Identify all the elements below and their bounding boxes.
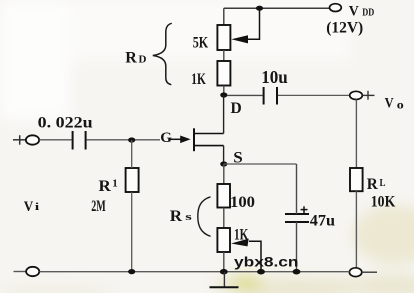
wire: 1K pot bottom lead: [223, 252, 225, 272]
capacitor 0.022u: [73, 131, 86, 150]
terminal Vo with plus tick: [350, 91, 375, 100]
resistor R1: [126, 168, 139, 192]
terminal VDD: [330, 4, 342, 12]
svg-text:0. 022u: 0. 022u: [38, 115, 93, 132]
wire: input terminal to 0.022u cap: [39, 139, 71, 141]
wire: source vertical down to node S: [223, 146, 225, 164]
label 10u: [261, 67, 288, 87]
resistor 100 (upper Rs): [217, 184, 230, 208]
resistor RL: [350, 168, 363, 191]
wire: S to bypass cap branch: [224, 163, 297, 165]
svg-text:1K: 1K: [234, 226, 248, 243]
wire: bottom rail: [39, 271, 349, 273]
svg-text:1K: 1K: [191, 71, 206, 88]
potentiometer 5K (upper half of RD): [217, 8, 259, 50]
label D: [231, 100, 242, 117]
watermark ybx8.cn: [234, 255, 299, 270]
label Rs: [170, 208, 193, 225]
terminal bottom-right with stub: [349, 268, 377, 277]
label 1K (RD lower): [191, 71, 206, 88]
label VDD: [349, 3, 375, 19]
wire: top rail from RD top to VDD terminal: [224, 7, 330, 9]
potentiometer 1K (lower Rs): [217, 228, 261, 272]
terminal bottom-left with stub: [14, 267, 40, 276]
label RD: [125, 49, 146, 66]
node S: [220, 161, 227, 166]
wire: drain vertical up to node D: [223, 95, 225, 134]
svg-text:DD: DD: [362, 8, 374, 19]
svg-text:R: R: [125, 49, 137, 66]
svg-text:D: D: [231, 100, 242, 117]
svg-text:10K: 10K: [371, 193, 396, 210]
label (12V): [326, 19, 363, 36]
svg-text:2M: 2M: [91, 198, 106, 215]
wire: node D to coupling cap: [227, 94, 263, 96]
svg-text:ybx8.cn: ybx8.cn: [234, 255, 299, 270]
svg-text:47u: 47u: [310, 213, 335, 230]
label R1: [99, 178, 118, 195]
wire: between 5K and 1K: [223, 50, 225, 61]
node: R1 to rail junction: [128, 269, 135, 274]
svg-text:5K: 5K: [193, 34, 209, 51]
svg-text:V: V: [24, 199, 34, 215]
svg-text:R: R: [367, 176, 378, 193]
svg-text:L: L: [380, 177, 386, 189]
wire: between 100 and 1K pot: [223, 208, 225, 229]
capacitor 47u with polarity plus: [285, 206, 309, 222]
svg-text:V: V: [349, 3, 359, 19]
svg-text:s: s: [185, 211, 193, 223]
label RL: [367, 176, 386, 193]
svg-text:10u: 10u: [261, 67, 288, 87]
wire: S down to Rs: [223, 164, 225, 184]
wire: R1 top lead: [131, 140, 133, 168]
label Vo: [385, 95, 404, 111]
node: 47u to rail junction: [293, 269, 301, 275]
wire: Vo down to RL: [355, 99, 357, 168]
svg-text:D: D: [139, 54, 147, 66]
svg-text:R: R: [170, 208, 183, 225]
node: gate / R1 junction: [128, 137, 135, 142]
svg-text:1: 1: [112, 178, 118, 190]
label 10K: [371, 193, 396, 210]
svg-text:100: 100: [230, 194, 255, 211]
label 47u: [310, 213, 335, 230]
JFET Q1: [194, 128, 224, 151]
wire: RL down to bottom-right terminal: [355, 191, 357, 268]
label 2M: [91, 198, 106, 215]
svg-text:(12V): (12V): [326, 19, 363, 36]
resistor 1K (lower half of RD): [217, 61, 230, 86]
capacitor 10u: [264, 87, 277, 105]
label S: [233, 149, 243, 166]
node D: [220, 92, 227, 97]
svg-text:o: o: [397, 98, 404, 112]
wire: 47u bottom lead: [296, 222, 298, 272]
ground: [210, 272, 239, 287]
svg-text:G: G: [160, 130, 172, 146]
wire: 5K top lead: [223, 8, 225, 25]
brace RD: [153, 23, 172, 84]
wire: 1K bottom lead down to node D: [223, 86, 225, 96]
node: Rs to rail junction: [220, 269, 228, 275]
gate arrow: [169, 136, 191, 144]
node: wiper junction on top rail: [256, 6, 263, 11]
label 100: [230, 194, 255, 211]
svg-text:V: V: [385, 95, 394, 111]
label 0.022u: [38, 115, 93, 132]
label G: [160, 130, 172, 146]
wire: cap to gate: [87, 139, 160, 141]
wire: R1 bottom lead: [131, 192, 133, 272]
terminal input with plus tick: [13, 135, 39, 145]
wire: cap to Vo terminal: [278, 94, 350, 96]
label 5K: [193, 34, 209, 51]
brace Rs: [198, 197, 211, 237]
wire: 47u top lead: [296, 164, 298, 214]
node: wiper to rail junction: [257, 269, 265, 275]
label Vi: [24, 199, 40, 215]
label 1K (Rs lower): [234, 226, 248, 243]
svg-text:i: i: [35, 201, 40, 213]
svg-text:R: R: [99, 178, 112, 195]
